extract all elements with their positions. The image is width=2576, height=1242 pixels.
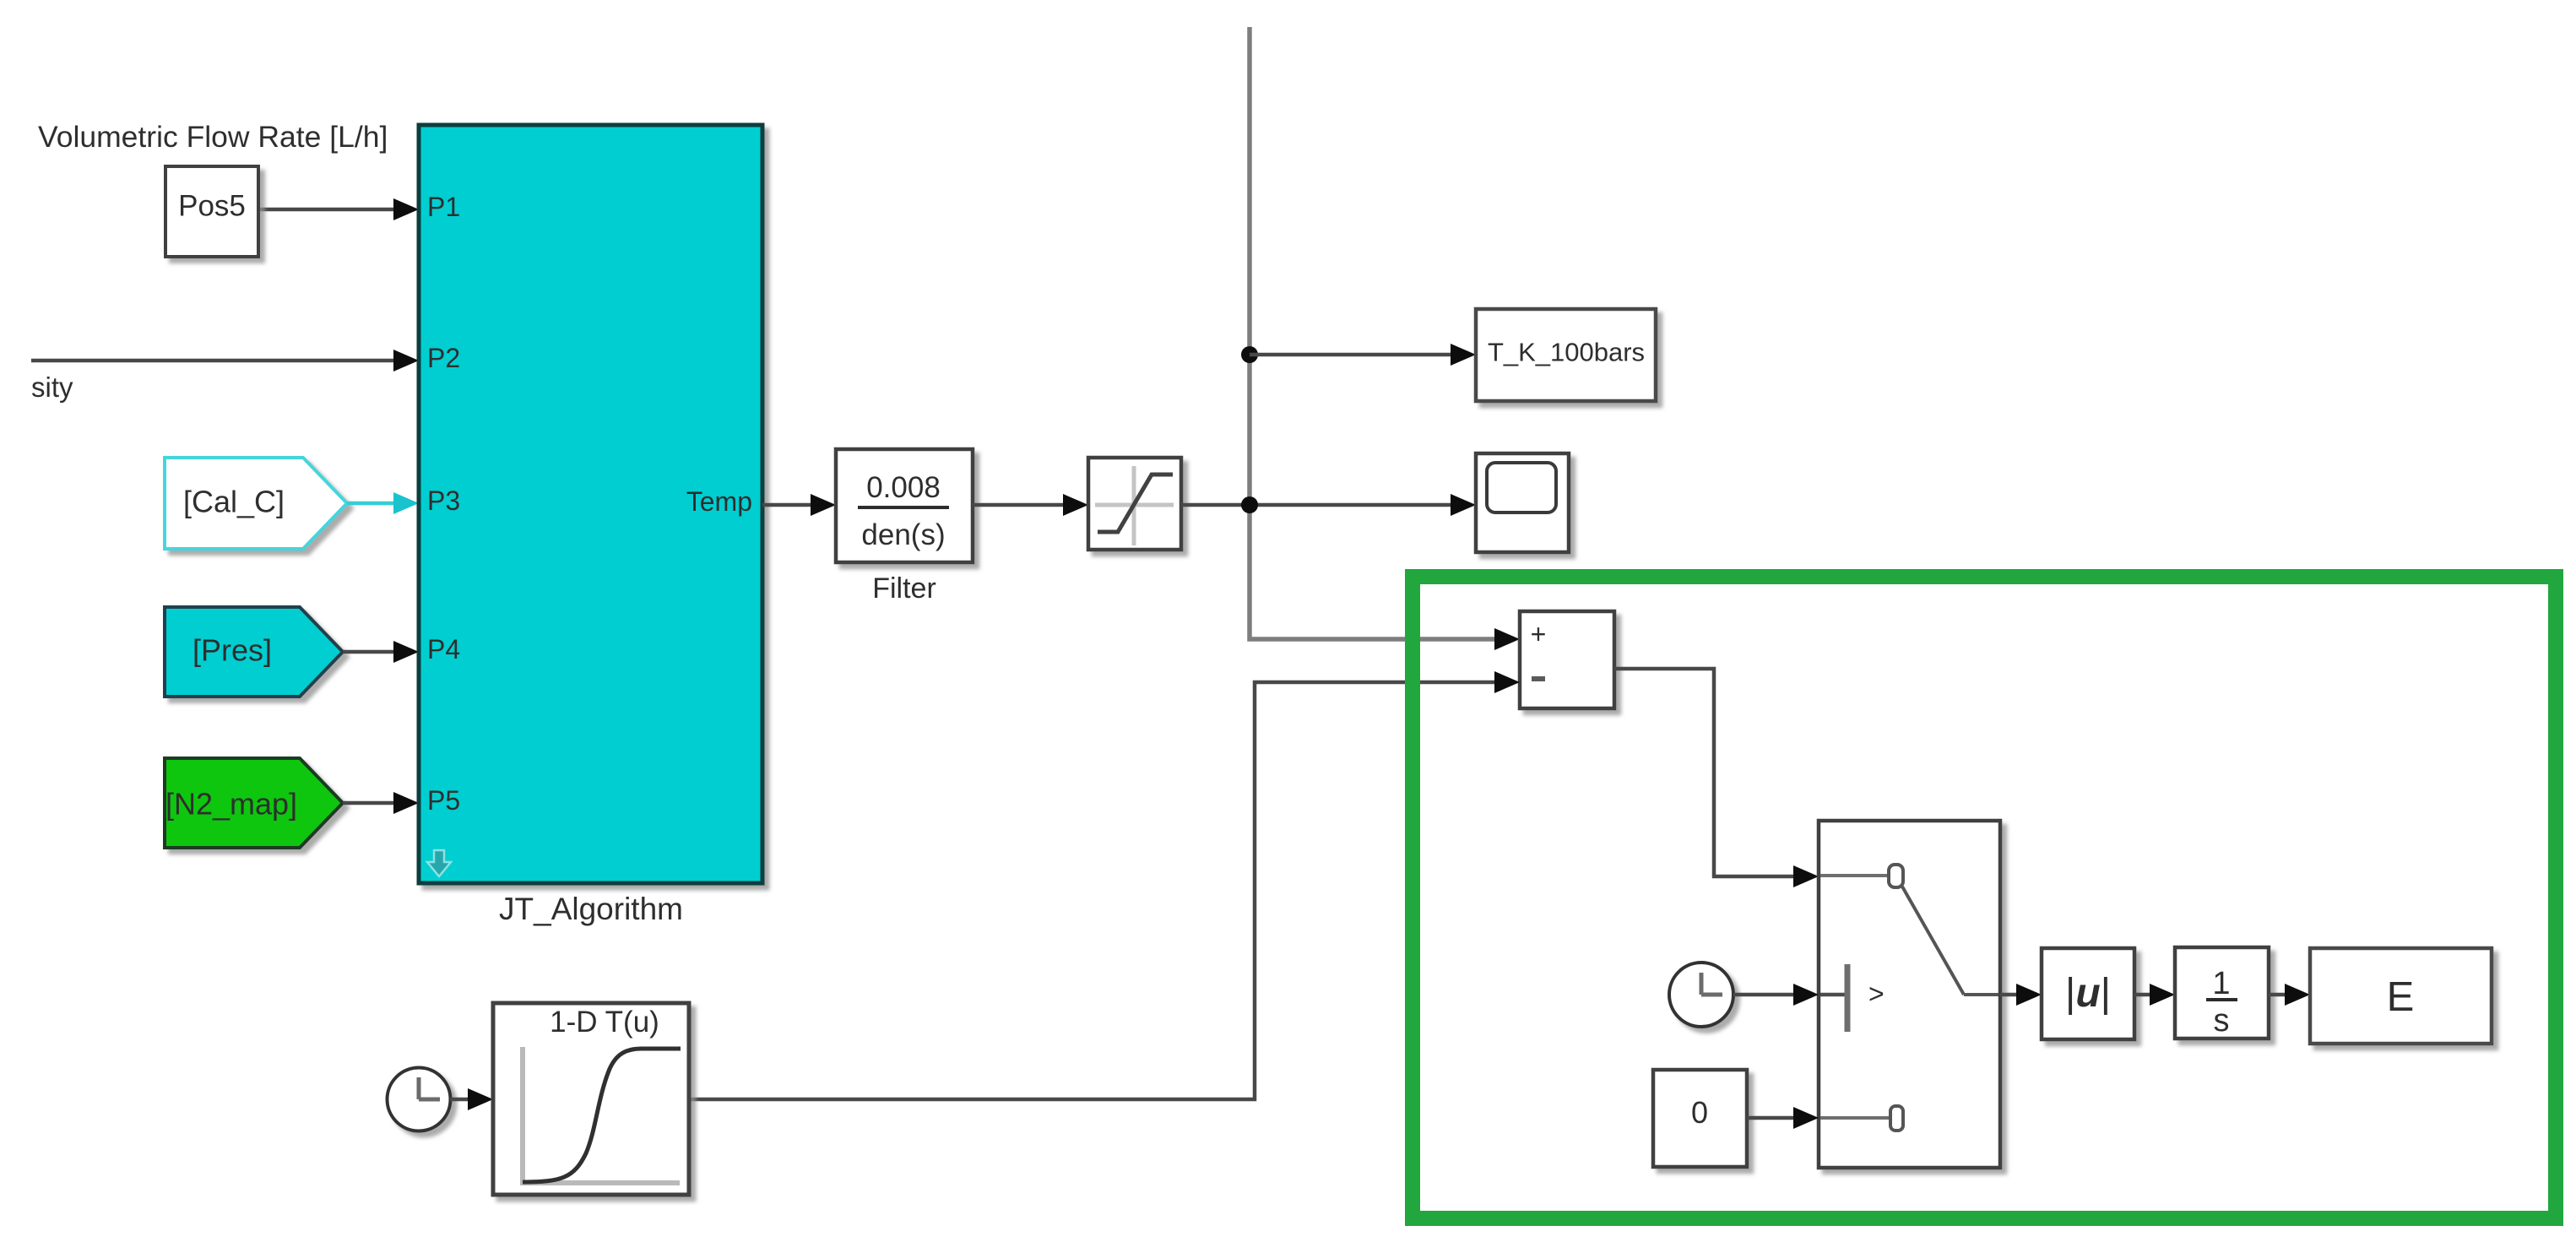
junction dot at T_K branch	[1241, 346, 1258, 363]
wire sum output to switch input1	[1614, 669, 1819, 887]
green highlight frame	[1413, 577, 2556, 1218]
svg-text:[Pres]: [Pres]	[193, 633, 272, 668]
block Switch	[1819, 821, 2000, 1168]
svg-text:[Cal_C]: [Cal_C]	[183, 485, 285, 519]
svg-text:Temp: Temp	[686, 486, 752, 517]
svg-text:P4: P4	[427, 634, 460, 664]
vertical trunk wire	[1250, 27, 1501, 639]
block Scope	[1476, 453, 1569, 552]
svg-text:1-D T(u): 1-D T(u)	[550, 1006, 659, 1039]
subsystem down-arrow badge	[427, 850, 451, 876]
wire [Pres] to P4	[343, 641, 419, 663]
junction dot at Scope branch	[1241, 496, 1258, 513]
wire Filter to Saturation	[973, 494, 1088, 516]
wire switch output to abs	[2000, 984, 2042, 1006]
wire Constant 0 to switch input3	[1747, 1107, 1819, 1129]
svg-text:P5: P5	[427, 785, 460, 816]
svg-text:sity: sity	[31, 372, 73, 403]
wire Temp to Filter	[762, 494, 836, 516]
block Filter (transfer fcn 0.008/den(s))	[836, 449, 973, 562]
wire Clock1 to LUT	[450, 1088, 493, 1110]
block Constant 0	[1653, 1070, 1747, 1167]
block Clock1	[388, 1068, 451, 1131]
wire LUT output to sum minus	[689, 671, 1520, 1099]
svg-text:P2: P2	[427, 343, 460, 373]
wire Pos5 to P1	[258, 198, 419, 220]
subsystem block JT_Algorithm	[419, 125, 762, 883]
svg-text:Pos5: Pos5	[178, 190, 246, 223]
wire trunk to T_K_100bars	[1250, 344, 1476, 366]
wire [Cal_C] to P3 (cyan)	[347, 492, 419, 514]
svg-text:JT_Algorithm: JT_Algorithm	[499, 892, 683, 926]
wire Saturation to Scope (through junction)	[1181, 494, 1476, 516]
arrowhead into sum plus	[1494, 628, 1520, 650]
wire [N2_map] to P5	[343, 792, 419, 814]
wire Clock2 to switch input2	[1733, 984, 1819, 1006]
svg-text:>: >	[1868, 979, 1885, 1009]
svg-text:T_K_100bars: T_K_100bars	[1488, 338, 1645, 367]
block Saturation	[1088, 458, 1181, 550]
block T_K_100bars (To Workspace)	[1476, 309, 1656, 401]
svg-text:1: 1	[2212, 966, 2230, 1001]
block Integrator 1/s	[2175, 947, 2269, 1039]
block Abs |u|	[2042, 948, 2134, 1039]
block Clock2	[1669, 963, 1733, 1027]
svg-text:|u|: |u|	[2065, 971, 2111, 1016]
svg-text:0: 0	[1691, 1095, 1708, 1130]
From tag [N2_map]	[165, 758, 343, 848]
svg-text:P1: P1	[427, 192, 460, 222]
wire sity to P2	[31, 350, 419, 372]
svg-text:[N2_map]: [N2_map]	[165, 787, 297, 822]
From tag [Cal_C]	[165, 458, 347, 549]
block Pos5 (Goto)	[165, 166, 258, 257]
wire integrator to E	[2269, 984, 2310, 1006]
wire abs to integrator	[2134, 984, 2175, 1006]
svg-text:Filter: Filter	[872, 572, 936, 605]
block Sum	[1520, 611, 1614, 708]
svg-text:Volumetric Flow Rate [L/h]: Volumetric Flow Rate [L/h]	[38, 120, 388, 154]
svg-text:den(s): den(s)	[861, 518, 945, 551]
svg-text:+: +	[1531, 619, 1547, 649]
block E (To Workspace)	[2310, 948, 2492, 1044]
block 1-D Lookup Table	[493, 1003, 689, 1195]
svg-text:s: s	[2214, 1003, 2230, 1039]
svg-text:P3: P3	[427, 485, 460, 516]
svg-text:E: E	[2387, 974, 2415, 1020]
From tag [Pres]	[165, 607, 343, 697]
svg-text:0.008: 0.008	[866, 471, 941, 504]
